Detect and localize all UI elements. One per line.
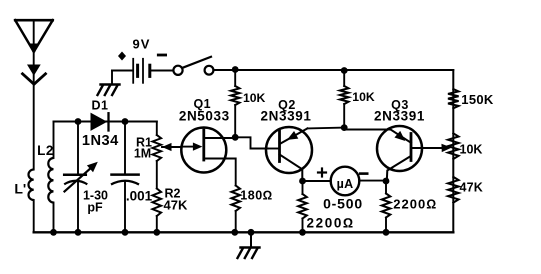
svg-text:D1: D1	[92, 98, 109, 112]
svg-text:0-500: 0-500	[323, 196, 363, 212]
svg-text:2N3391: 2N3391	[261, 108, 312, 123]
svg-text:47K: 47K	[460, 181, 484, 195]
svg-text:.001: .001	[126, 189, 153, 204]
svg-text:1N34: 1N34	[82, 133, 119, 149]
svg-text:2200Ω: 2200Ω	[307, 216, 355, 231]
svg-text:pF: pF	[87, 201, 103, 215]
svg-text:L2: L2	[37, 143, 54, 158]
svg-text:10K: 10K	[460, 142, 483, 156]
svg-text:L': L'	[14, 181, 26, 197]
svg-text:µA: µA	[337, 177, 354, 191]
svg-text:2N5033: 2N5033	[179, 108, 230, 123]
svg-text:150K: 150K	[461, 92, 494, 107]
svg-text:10K: 10K	[243, 91, 266, 105]
svg-text:9V: 9V	[133, 37, 151, 52]
svg-text:47K: 47K	[164, 198, 188, 213]
svg-text:180Ω: 180Ω	[240, 189, 272, 203]
svg-text:10K: 10K	[352, 90, 375, 104]
svg-text:1M: 1M	[134, 147, 151, 161]
svg-text:2200Ω: 2200Ω	[393, 196, 437, 211]
svg-text:2N3391: 2N3391	[374, 109, 425, 124]
